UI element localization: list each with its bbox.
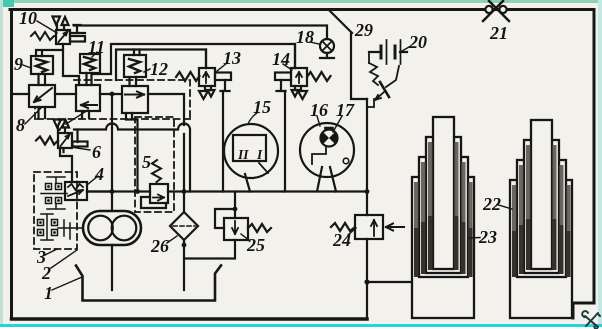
battery 20 [369, 40, 407, 64]
contact dots [39, 185, 60, 234]
svg-text:18: 18 [296, 27, 314, 47]
box 9 pilot [31, 56, 53, 85]
coupling 21 on top line [483, 1, 509, 21]
svg-text:21: 21 [489, 23, 508, 43]
solenoid valve 14 [275, 44, 331, 99]
svg-text:6: 6 [92, 142, 101, 162]
svg-text:1: 1 [44, 283, 53, 303]
svg-text:I: I [256, 147, 263, 162]
switch lever to block 29 [330, 11, 352, 33]
solenoid valve 13 [176, 50, 231, 100]
svg-text:26: 26 [150, 236, 169, 256]
line B to valve 13 [116, 50, 206, 81]
scan edge cyan strips [0, 0, 602, 3]
valve 5 box [141, 184, 168, 208]
lamp 18 [320, 39, 334, 58]
pressure valve 24 [331, 215, 404, 239]
box 12 pilot [124, 50, 146, 87]
wire: valve10 pilot to lamp 18 [74, 26, 327, 40]
svg-text:10: 10 [19, 8, 37, 28]
wire from valve13 T to main line [222, 91, 224, 192]
relief valve 25 [215, 192, 271, 241]
frame: top border line [10, 8, 594, 11]
svg-text:8: 8 [16, 115, 25, 135]
valve block section 12 lower [122, 86, 148, 113]
section 12 output down to main line [126, 113, 138, 192]
svg-text:11: 11 [88, 37, 105, 57]
telescopic cylinder left (23) [412, 117, 474, 318]
telescopic cylinder right (22) [510, 120, 572, 318]
svg-text:15: 15 [253, 97, 271, 117]
valve 24 drain to bottom line [366, 239, 368, 318]
block 29 wiring [351, 33, 367, 99]
svg-text:22: 22 [482, 194, 501, 214]
valve block section 8 [29, 85, 55, 118]
valve10 output line [63, 44, 79, 85]
svg-text:7: 7 [57, 115, 67, 135]
box 4 output to main line [87, 190, 112, 192]
frame: left border line [10, 10, 13, 320]
svg-text:13: 13 [223, 48, 241, 68]
svg-text:14: 14 [272, 49, 290, 69]
frame: bottom return line [12, 317, 368, 321]
svg-text:23: 23 [478, 227, 497, 247]
feed line to cylinder 1 [367, 281, 412, 283]
distributor circle 16 [300, 123, 354, 192]
main supply line y94 from left border through block to down riser [12, 94, 185, 125]
label leader lines [23, 21, 512, 290]
pump riser [111, 94, 113, 211]
svg-text:17: 17 [336, 100, 355, 120]
transistor unit of 29 [367, 52, 399, 107]
valve 6 output to box 4 [60, 148, 72, 182]
valve 6 [36, 120, 88, 149]
vertical from y94 to filter with crossings [183, 134, 185, 212]
svg-text:29: 29 [354, 20, 373, 40]
filter 26 [170, 212, 198, 240]
dashed enclosure of valve block [35, 80, 190, 119]
tank 1 [76, 266, 221, 301]
svg-text:2: 2 [41, 263, 51, 283]
line A to valve 14 [92, 44, 295, 74]
svg-text:12: 12 [150, 59, 168, 79]
drive contacts upper [41, 177, 67, 209]
dashed box 3 drive unit [34, 172, 77, 249]
svg-text:24: 24 [332, 230, 351, 250]
svg-text:16: 16 [310, 100, 328, 120]
wire from valve14 T to main line [284, 91, 286, 192]
valve 5 spring [152, 160, 161, 182]
roman numerals in circle 15 [237, 147, 263, 162]
tools watermark icon bottom right [582, 311, 600, 328]
frame: right border line with step [573, 10, 594, 319]
main pressure line [87, 190, 367, 192]
element 17 quartered circle [321, 129, 338, 147]
box 11 pilot [80, 54, 100, 85]
dashed box 5 [135, 117, 174, 212]
svg-text:5: 5 [142, 152, 151, 172]
filter to tank line [183, 240, 185, 290]
number labels [14, 8, 508, 303]
pump 2 [83, 211, 141, 245]
svg-text:9: 9 [14, 54, 23, 74]
svg-text:4: 4 [94, 164, 104, 184]
svg-text:II: II [237, 147, 249, 162]
valve block section 7 [76, 85, 100, 118]
junction node at riser top [110, 92, 115, 97]
valve 25 drain [184, 240, 235, 259]
svg-text:20: 20 [408, 32, 427, 52]
distributor circle 15 [224, 124, 278, 192]
drive contacts lower [38, 214, 84, 240]
pilot line from valve 6 with hops [74, 124, 190, 192]
box 4 pressure regulator [65, 182, 87, 200]
svg-text:25: 25 [246, 235, 265, 255]
pump suction to tank [111, 245, 113, 290]
valve 10 [31, 17, 85, 45]
